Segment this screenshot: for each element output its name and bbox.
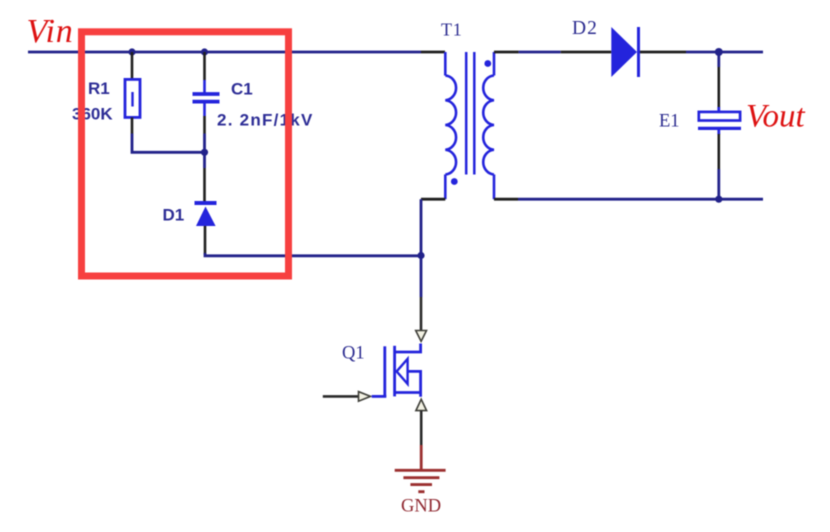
pin D2 anode (black) <box>561 51 612 54</box>
wire E1 bottom to bottom bus <box>717 169 720 199</box>
node junction dot snubber mid <box>201 149 208 156</box>
ground bar 1 <box>395 469 446 472</box>
transformer T1 core line left <box>465 52 468 175</box>
wire drain node down (navy) <box>420 256 423 298</box>
pin D1 cathode (black) <box>203 168 206 201</box>
port arrow into gate <box>359 392 371 402</box>
svg-text:C1: C1 <box>231 80 253 99</box>
pin D2 cathode (black) <box>640 51 686 54</box>
svg-text:D1: D1 <box>163 206 185 225</box>
transistor Q1 gate lead <box>372 395 387 398</box>
node junction dot output top <box>715 48 723 56</box>
transformer T1 phase dot primary bottom <box>451 178 458 185</box>
pin T1 secondary bottom (black) <box>494 198 518 201</box>
ground bar 4 <box>418 490 424 493</box>
node junction dot drain node <box>417 252 424 259</box>
transformer T1 core line right <box>473 52 476 175</box>
svg-text:R1: R1 <box>88 79 110 98</box>
node junction dot C1 tap <box>201 48 208 55</box>
capacitor E1 top plate (polar box) <box>699 112 740 121</box>
diode D2 cathode bar <box>637 27 640 77</box>
pin R1 top (black) <box>131 52 134 79</box>
wire node down to D1 <box>203 152 206 168</box>
red highlight box around snubber <box>82 32 289 276</box>
capacitor C1 bottom plate <box>193 100 220 104</box>
transistor Q1 channel bar <box>393 346 396 397</box>
transformer T1 secondary winding bumps <box>483 76 494 175</box>
wire R1 bottom to C1/D1 node <box>132 134 205 153</box>
transistor Q1 source lead <box>395 393 421 397</box>
diode D1 triangle <box>196 207 216 227</box>
pin T1 primary top (black) <box>421 51 445 54</box>
wire D2 to output node <box>686 51 763 54</box>
wire into drain port arrow (black) <box>420 297 423 331</box>
ground bar 3 <box>410 483 432 486</box>
svg-text:Vin: Vin <box>27 13 74 50</box>
diode D2 triangle <box>611 27 637 77</box>
ground lead (dark red) <box>420 445 423 470</box>
svg-text:D2: D2 <box>572 18 598 39</box>
pin C1 top (black) <box>203 52 206 80</box>
wire bottom bus to output <box>518 198 763 201</box>
port arrow from source <box>416 399 427 410</box>
pin R1 bottom (black) <box>131 117 134 133</box>
svg-text:T1: T1 <box>441 20 463 40</box>
capacitor E1 bottom lead stub <box>717 130 720 135</box>
transformer T1 primary winding bumps <box>445 76 456 175</box>
capacitor C1 bottom lead <box>203 104 206 117</box>
svg-text:GND: GND <box>401 497 441 517</box>
transformer T1 secondary vertical bottom <box>493 175 496 200</box>
transistor Q1 body arrow <box>397 359 408 384</box>
pin T1 secondary top (black) <box>494 51 519 54</box>
svg-text:Vout: Vout <box>746 99 806 135</box>
pin E1 top (black) <box>717 67 720 108</box>
transistor Q1 gate bar <box>383 346 386 396</box>
transistor Q1 body link <box>408 371 421 392</box>
wire secondary top to D2 <box>519 51 561 54</box>
port arrow into drain <box>416 331 427 342</box>
pin T1 primary bottom (black) <box>421 198 445 201</box>
svg-text:Q1: Q1 <box>342 344 365 364</box>
wire D1 anode to drain node <box>205 253 421 256</box>
transformer T1 secondary vertical top <box>493 52 496 76</box>
node junction dot R1 tap <box>128 48 135 55</box>
ground bar 2 <box>403 476 439 479</box>
wire source to ground (black) <box>420 411 423 445</box>
transformer T1 primary vertical top <box>444 52 447 76</box>
pin C1 bottom (black) <box>203 116 206 134</box>
capacitor C1 top plate <box>193 92 220 96</box>
wire output node down to E1 <box>717 52 720 67</box>
transformer T1 phase dot secondary top <box>484 60 491 67</box>
capacitor E1 bottom plate <box>698 127 741 130</box>
resistor R1 inner mark <box>131 92 133 107</box>
wire primary bottom down to drain node <box>420 199 423 255</box>
node junction dot output bottom <box>715 196 722 203</box>
wire C1 bottom to node <box>203 134 206 153</box>
pin D1 anode (black) <box>204 226 207 254</box>
transformer T1 primary vertical bottom <box>444 175 447 200</box>
pin E1 bottom (black) <box>717 134 720 169</box>
transistor Q1 drain lead <box>395 344 421 353</box>
wire top bus from Vin to T1 primary <box>28 51 421 54</box>
capacitor E1 top lead stub <box>717 107 720 112</box>
capacitor C1 top lead <box>203 80 206 93</box>
wire gate stub (black) <box>323 395 358 398</box>
diode D1 cathode bar <box>195 201 217 205</box>
svg-text:2. 2nF/1kV: 2. 2nF/1kV <box>217 111 314 130</box>
svg-text:E1: E1 <box>659 112 680 132</box>
resistor R1 body <box>125 79 140 117</box>
